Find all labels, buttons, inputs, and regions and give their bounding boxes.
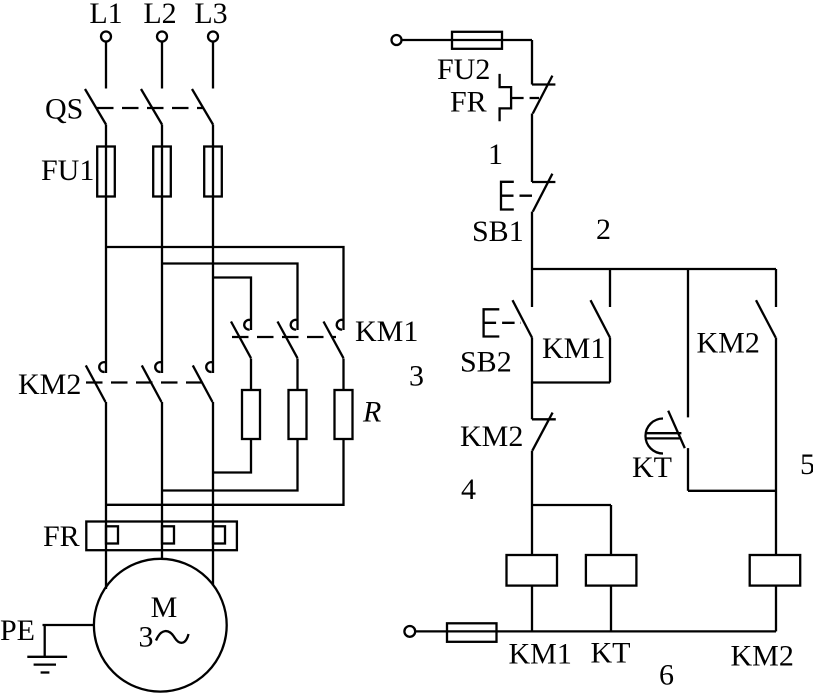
svg-text:QS: QS (45, 93, 83, 126)
svg-text:FU1: FU1 (41, 154, 94, 187)
svg-text:KM2: KM2 (460, 420, 523, 453)
svg-text:FR: FR (43, 520, 80, 553)
wire resistor B to phase L2 (162, 439, 298, 491)
svg-text:FU2: FU2 (437, 53, 490, 86)
wire KM1 aux to rejoin bus (609, 338, 611, 383)
contactor KM1 main contact C (324, 320, 344, 358)
node 2 bus wire (532, 268, 776, 270)
wire node2 to SB2 (531, 269, 533, 307)
svg-text:KM1: KM1 (509, 638, 572, 671)
time relay KT delay double bar (646, 433, 682, 438)
wire QS to FU1 pole 2 (161, 125, 163, 147)
pushbutton SB1 actuator (501, 182, 514, 210)
wire tap from L1 to KM1 contact C (106, 247, 344, 330)
svg-text:4: 4 (461, 473, 476, 506)
wire PE to motor (43, 624, 95, 626)
pushbutton SB2 actuator (484, 309, 500, 336)
wire node2 to KT contact (687, 269, 689, 417)
coil KM2 (750, 555, 801, 586)
wire resistor A to phase L3 (213, 439, 251, 473)
time relay KT delay semicircle (646, 419, 664, 454)
wire phase L1 KM2 to FR (105, 402, 107, 522)
svg-text:KM1: KM1 (355, 315, 418, 348)
wire KM1 contact B to resistor (296, 359, 298, 391)
wire KM2 aux to KM2 coil (775, 338, 777, 555)
wire KT coil to bottom bus (610, 586, 612, 632)
svg-text:L3: L3 (194, 0, 227, 30)
coil KM1 (507, 555, 558, 586)
switch QS pole 2 blade (141, 89, 162, 125)
wire KM2 coil to bottom bus (775, 586, 777, 632)
contactor KM1 aux NO contact (591, 300, 611, 337)
wire node4 to KT coil (610, 505, 612, 555)
control supply terminal bottom (404, 626, 415, 637)
pushbutton SB2 NO contact (513, 300, 533, 337)
fuse FU3 bottom (447, 623, 497, 642)
wire bottom terminal through fuse (415, 630, 776, 632)
contactor KM2 main contact pole 3 (193, 362, 213, 402)
wire SB1 to node 2 bus (531, 212, 533, 269)
svg-text:3: 3 (409, 360, 424, 393)
wire QS to FU1 pole 1 (105, 125, 107, 147)
wire node2 to KM1 aux contact (609, 269, 611, 307)
wire SB2 to rejoin bus (531, 338, 533, 383)
svg-text:2: 2 (596, 213, 611, 246)
svg-text:PE: PE (0, 614, 35, 647)
wire terminal to FU2 (402, 39, 533, 41)
contactor KM2 main contact pole 2 (142, 362, 162, 402)
fuse FU1 pole 3 (204, 147, 222, 197)
resistor R element B (289, 390, 307, 439)
svg-text:L1: L1 (89, 0, 122, 30)
node 4 bus wire (532, 504, 611, 506)
svg-text:M: M (151, 591, 178, 624)
wire KM1 coil to bottom bus (531, 586, 533, 632)
contactor KM1 linkage dashed line (232, 336, 336, 338)
node L3 terminal (194, 0, 227, 42)
wire phase L1 from FU1 to KM2 contact (105, 197, 107, 374)
wire down to FR contact (531, 40, 533, 85)
coil KT (586, 555, 637, 586)
wire node4 to KM1 coil (531, 505, 533, 555)
contactor KM2 linkage dashed line (86, 381, 204, 383)
wire FR to motor phase 2 (161, 550, 163, 559)
contactor KM2 aux NO contact (756, 300, 776, 337)
node L1 terminal (89, 0, 122, 42)
switch QS pole 3 blade (192, 89, 213, 125)
wire phase L2 from FU1 to KM2 contact (161, 197, 163, 374)
wire L1 terminal to QS (105, 42, 107, 89)
resistor R element A (242, 390, 260, 439)
wire FR contact to SB1 (531, 114, 533, 183)
thermal relay FR heater 3 (213, 522, 225, 551)
svg-text:5: 5 (800, 448, 813, 481)
svg-text:KT: KT (632, 451, 672, 484)
svg-text:KM2: KM2 (697, 327, 760, 360)
wire KT contact down (687, 448, 689, 491)
wire KM1 contact C to resistor (342, 359, 344, 391)
svg-text:KM2: KM2 (731, 640, 794, 673)
fuse FU1 pole 1 (97, 147, 115, 197)
wire PE down to ground (44, 625, 46, 657)
contactor KM2 NC interlock contact (532, 413, 556, 451)
svg-text:KM1: KM1 (542, 332, 605, 365)
thermal relay FR box (86, 522, 237, 551)
wire FR to motor phase 1 (105, 550, 107, 589)
wire phase L3 KM2 to FR (212, 402, 214, 522)
motor 3-phase label (139, 621, 189, 654)
svg-text:6: 6 (659, 659, 674, 692)
fuse FU2 (452, 32, 502, 49)
svg-text:FR: FR (450, 86, 487, 119)
resistor R element C (335, 390, 353, 439)
wire node2 to KM2 aux contact (775, 269, 777, 307)
pushbutton SB1 dashed link (501, 195, 532, 197)
control supply terminal top (392, 35, 402, 45)
svg-text:KM2: KM2 (18, 368, 81, 401)
wire tap from L3 to KM1 contact A (213, 278, 251, 331)
wire resistor C to phase L1 (106, 439, 344, 505)
thermal relay FR heater 1 (106, 522, 118, 551)
svg-text:3: 3 (139, 621, 154, 654)
wire phase L3 from FU1 to KM2 contact (212, 197, 214, 374)
node L2 terminal (143, 0, 176, 42)
svg-text:R: R (362, 396, 381, 429)
thermal relay FR NC contact (532, 76, 555, 114)
svg-text:KT: KT (591, 637, 631, 670)
motor M circle (94, 559, 227, 692)
pushbutton SB2 dashed link (484, 322, 521, 324)
contactor KM1 main contact B (278, 320, 298, 358)
contactor KM2 main contact pole 1 (86, 362, 106, 402)
wire phase L2 KM2 to FR (161, 402, 163, 522)
wire KM1 contact A to resistor (250, 359, 252, 391)
wire FR to motor phase 3 (212, 550, 214, 585)
wire QS to FU1 pole 3 (212, 125, 214, 147)
svg-text:1: 1 (488, 138, 503, 171)
wire KM2 NC to node 4 bus (531, 451, 533, 505)
time relay KT delayed NO contact blade (668, 411, 685, 448)
svg-text:L2: L2 (143, 0, 176, 30)
fuse FU1 pole 2 (153, 147, 171, 197)
wire rejoin bus to KM2 NC (531, 383, 533, 420)
wire tap from L2 to KM1 contact B (162, 264, 298, 331)
thermal relay FR trip actuator (500, 74, 512, 121)
wire L3 terminal to QS (212, 42, 214, 89)
ground symbol (27, 657, 67, 673)
contactor KM1 main contact A (231, 320, 251, 358)
pushbutton SB1 NC contact (532, 174, 555, 212)
wire L2 terminal to QS (161, 42, 163, 89)
thermal relay FR heater 2 (162, 522, 174, 551)
svg-text:SB2: SB2 (460, 346, 512, 379)
svg-text:SB1: SB1 (472, 215, 524, 248)
rejoin bus wire (532, 381, 610, 383)
switch QS pole 1 blade (85, 89, 106, 125)
thermal relay FR actuator dashed link (511, 97, 539, 99)
wire KT branch to KM2 branch (688, 490, 776, 492)
switch QS linkage dashed line (97, 107, 203, 109)
